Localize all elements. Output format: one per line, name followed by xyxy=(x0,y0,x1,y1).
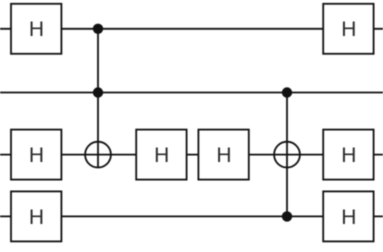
H gate q2 middle B xyxy=(198,130,248,180)
H gate q2 left xyxy=(11,130,61,180)
wire q1 xyxy=(0,92,383,94)
svg-text:H: H xyxy=(341,18,356,41)
H gate q0 left xyxy=(11,4,61,54)
svg-text:H: H xyxy=(29,144,44,167)
svg-text:H: H xyxy=(29,18,44,41)
vertical wire column 2 (Toffoli q1,q3 -> q2) xyxy=(286,93,288,217)
CNOT target q2 column 2 xyxy=(274,142,300,168)
control dot q1 column 2 xyxy=(282,87,292,97)
vertical wire column 1 (Toffoli q0,q1 -> q2) xyxy=(97,29,99,168)
svg-text:H: H xyxy=(154,144,169,167)
wire q3 xyxy=(0,215,383,217)
H gate q3 right xyxy=(323,191,373,241)
wire q2 xyxy=(0,154,383,156)
control dot q1 column 1 xyxy=(93,87,103,97)
wire q0 xyxy=(0,28,383,30)
H gate q3 left xyxy=(11,191,61,241)
svg-text:H: H xyxy=(29,206,44,229)
svg-text:H: H xyxy=(216,144,231,167)
svg-text:H: H xyxy=(341,206,356,229)
H gate q2 middle A xyxy=(136,130,186,180)
H gate q0 right xyxy=(323,4,373,54)
control dot q3 column 2 xyxy=(282,211,292,221)
H gate q2 right xyxy=(323,130,373,180)
CNOT target q2 column 1 xyxy=(85,142,111,168)
svg-text:H: H xyxy=(341,144,356,167)
control dot q0 column 1 xyxy=(93,24,103,34)
